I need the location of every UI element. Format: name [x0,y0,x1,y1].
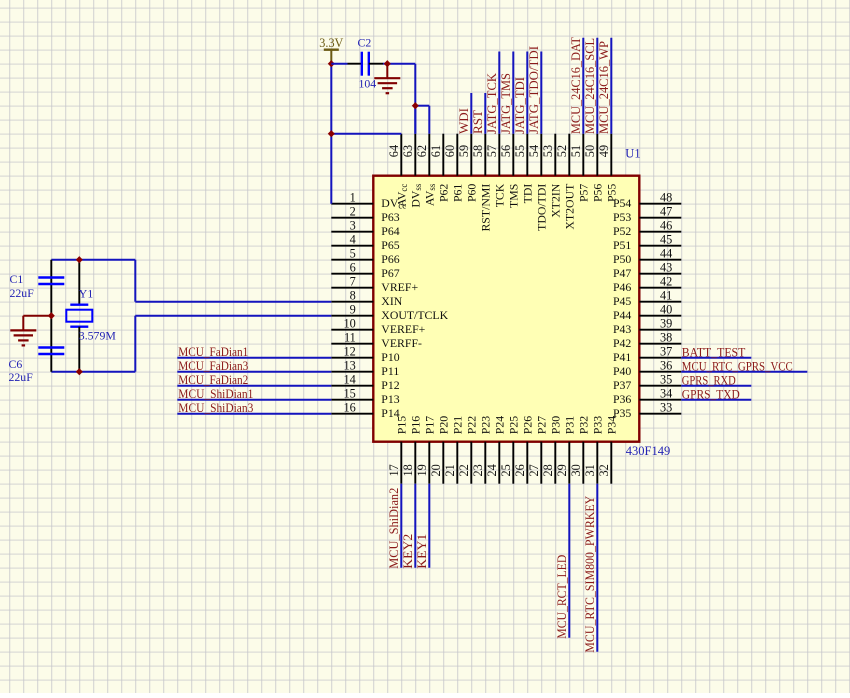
wire net JATG_TDI [526,52,528,134]
svg-text:28: 28 [541,464,555,476]
pin 24 P24 bottom [485,416,506,484]
svg-text:19: 19 [415,464,429,476]
svg-text:P16: P16 [409,416,423,434]
wire net BATT_TEST [681,357,751,359]
svg-text:P67: P67 [381,266,399,280]
svg-text:13: 13 [344,359,356,373]
svg-text:P51: P51 [613,238,631,252]
svg-text:17: 17 [387,464,401,476]
net label MCU_FaDian3 [178,359,248,373]
wire net JATG_TCK [498,52,500,134]
svg-text:37: 37 [660,345,672,359]
pin 12 P10 left [331,345,399,364]
svg-text:XT2IN: XT2IN [549,183,563,218]
svg-text:XT2OUT: XT2OUT [563,183,577,230]
pin 30 P32 bottom [569,416,590,484]
pin 33 P35 right [613,401,681,420]
svg-text:44: 44 [660,247,672,261]
net label MCU_RTC_GPRS_VCC [682,360,793,374]
svg-text:WDI: WDI [457,108,471,134]
pin 36 P40 right [613,359,681,378]
wire net JATG_TMS [512,52,514,134]
svg-text:2: 2 [350,205,356,219]
pin 4 P65 left [331,233,399,252]
svg-text:P22: P22 [465,416,479,434]
pin 63 DVss top [401,134,423,208]
wire net MCU_ShiDian2 [400,484,402,568]
svg-text:RST/NMI: RST/NMI [479,184,493,232]
svg-text:P44: P44 [613,308,631,322]
junction 3.3V branch [328,130,335,137]
svg-text:36: 36 [660,359,672,373]
net label KEY1 [415,534,429,569]
svg-text:P65: P65 [381,238,399,252]
svg-text:VREF+: VREF+ [381,280,418,294]
svg-text:RST: RST [471,110,485,134]
svg-text:60: 60 [443,145,457,157]
wire XIN to pin 8 [135,260,331,302]
svg-text:56: 56 [499,145,513,157]
net label WDI [457,108,471,134]
svg-text:MCU_FaDian2: MCU_FaDian2 [178,373,248,387]
svg-text:P30: P30 [549,416,563,434]
net label GPRS_TXD [682,388,740,402]
wire net MCU_RTC_GPRS_VCC [681,371,807,373]
svg-text:104: 104 [359,77,377,91]
svg-text:KEY1: KEY1 [415,534,429,569]
svg-text:48: 48 [660,191,672,205]
pin 56 TMS top [499,134,520,208]
svg-text:3: 3 [350,219,356,233]
svg-text:22: 22 [457,464,471,476]
svg-text:C6: C6 [9,357,23,371]
svg-text:42: 42 [660,275,672,289]
net label MCU_ShiDian3 [178,401,253,415]
svg-text:49: 49 [597,145,611,157]
svg-text:P56: P56 [591,184,605,202]
svg-text:34: 34 [660,387,672,401]
power 3.3V symbol [319,36,343,64]
svg-text:VEREF+: VEREF+ [381,322,425,336]
pin 1 DVcc left [331,191,406,211]
svg-text:21: 21 [443,464,457,476]
pin 20 P20 bottom [429,416,450,484]
pin 25 P25 bottom [499,416,520,484]
net label JATG_TCK [485,72,499,134]
pin 57 TCK top [485,134,506,208]
svg-text:61: 61 [429,145,443,157]
svg-text:23: 23 [471,464,485,476]
svg-text:JATG_TMS: JATG_TMS [499,73,513,134]
svg-text:C1: C1 [10,272,24,286]
pin 54 TDO/TDI top [527,134,548,231]
wire net KEY2 [414,484,416,568]
capacitor C6 22uF [9,348,65,385]
svg-text:P46: P46 [613,280,631,294]
net label JATG_TMS [499,73,513,134]
pin 17 P15 bottom [387,416,408,484]
svg-text:57: 57 [485,145,499,157]
svg-text:55: 55 [513,145,527,157]
svg-text:JATG_TCK: JATG_TCK [485,72,499,134]
svg-text:43: 43 [660,261,672,275]
svg-text:P26: P26 [521,416,535,434]
ground symbol left [10,316,51,346]
svg-text:3.579M: 3.579M [79,329,117,343]
pin 8 XIN left [331,289,402,308]
pin 42 P46 right [613,275,681,294]
svg-text:P41: P41 [613,350,631,364]
pin 16 P14 left [331,401,399,420]
svg-text:TMS: TMS [507,184,521,208]
net label GPRS_RXD [682,374,736,388]
pin 27 P27 bottom [527,416,548,484]
wire net GPRS_TXD [681,399,751,401]
wire ground net to pin 63 DVss [387,64,429,134]
svg-text:26: 26 [513,464,527,476]
net label JATG_TDO/TDI [527,46,541,134]
svg-text:TDI: TDI [521,184,535,204]
svg-text:XIN: XIN [381,294,402,308]
svg-text:VERFF-: VERFF- [381,336,422,350]
pin 38 P42 right [613,331,681,350]
pin 2 P63 left [331,205,399,224]
svg-text:3.3V: 3.3V [319,36,343,50]
pin 45 P51 right [613,233,681,252]
wire 3.3V branch to pin 64 AVcc [331,133,401,135]
crystal Y1 3.579M [66,260,116,372]
pin 51 P57 top [569,134,590,202]
svg-text:P25: P25 [507,416,521,434]
net label KEY2 [401,534,415,569]
svg-text:P20: P20 [437,416,451,434]
pin 6 P67 left [331,261,399,280]
wire net MCU_FaDian3 [177,371,331,373]
svg-text:P23: P23 [479,416,493,434]
pin 59 P60 top [457,134,478,202]
wire net MCU_FaDian1 [177,357,331,359]
svg-text:P13: P13 [381,392,399,406]
net label MCU_FaDian1 [178,345,248,359]
junction ground left [48,312,55,319]
svg-text:11: 11 [344,331,356,345]
svg-text:MCU_24C16_WP: MCU_24C16_WP [597,41,611,134]
svg-text:52: 52 [555,145,569,157]
svg-text:P63: P63 [381,210,399,224]
svg-text:P10: P10 [381,350,399,364]
svg-text:MCU_ShiDian1: MCU_ShiDian1 [178,387,253,401]
svg-text:39: 39 [660,317,672,331]
svg-text:P62: P62 [437,184,451,202]
pin 55 TDI top [513,134,534,204]
svg-text:54: 54 [527,145,541,157]
net label RST [471,110,485,134]
net label MCU_24C16_DAT [569,37,583,134]
svg-text:TCK: TCK [493,183,507,207]
pin 31 P33 bottom [583,416,604,484]
pin 22 P22 bottom [457,416,478,484]
svg-text:38: 38 [660,331,672,345]
svg-text:P21: P21 [451,416,465,434]
pin 47 P53 right [613,205,681,224]
svg-text:P57: P57 [577,184,591,202]
svg-text:6: 6 [350,261,356,275]
svg-text:50: 50 [583,145,597,157]
svg-text:47: 47 [660,205,672,219]
svg-text:29: 29 [555,464,569,476]
wire left branch C1/C6 [50,260,52,372]
pin 62 AVss top [415,134,437,206]
svg-text:P37: P37 [613,378,631,392]
svg-text:MCU_ShiDian2: MCU_ShiDian2 [387,488,401,569]
pin 37 P41 right [613,345,681,364]
wire net MCU_ShiDian3 [177,413,331,415]
svg-text:22uF: 22uF [9,370,34,384]
svg-text:64: 64 [387,145,401,157]
svg-text:MCU_RTC_SIM800_PWRKEY: MCU_RTC_SIM800_PWRKEY [583,496,597,653]
wire crystal bottom rail [51,371,135,373]
svg-text:GPRS_TXD: GPRS_TXD [682,388,740,402]
svg-text:P42: P42 [613,336,631,350]
svg-text:P11: P11 [381,364,399,378]
svg-text:P53: P53 [613,210,631,224]
svg-text:63: 63 [401,145,415,157]
svg-text:5: 5 [350,247,356,261]
pin 13 P11 left [331,359,399,378]
junction crystal top [76,256,83,263]
svg-text:P31: P31 [563,416,577,434]
net label BATT_TEST [682,346,746,360]
svg-text:62: 62 [415,145,429,157]
svg-text:58: 58 [471,145,485,157]
svg-text:P47: P47 [613,266,631,280]
svg-text:BATT_TEST: BATT_TEST [682,346,746,360]
net label MCU_RTC_SIM800_PWRKEY [583,496,597,653]
svg-text:Y1: Y1 [79,287,94,301]
pin 14 P12 left [331,373,399,392]
pin 28 P30 bottom [541,416,562,484]
pin 35 P37 right [613,373,681,392]
svg-text:P50: P50 [613,252,631,266]
pin 15 P13 left [331,387,399,406]
wire net MCU_FaDian2 [177,385,331,387]
wire XOUT/TCLK from pin 9 [135,316,331,372]
ground symbol top [374,64,400,93]
svg-text:20: 20 [429,464,443,476]
pin 32 P34 bottom [597,416,618,484]
svg-text:41: 41 [660,289,672,303]
wire 3.3V rail vertical to pin 1 [330,64,332,204]
svg-text:59: 59 [457,145,471,157]
svg-text:P12: P12 [381,378,399,392]
capacitor C2 104 [331,36,387,91]
wire net GPRS_RXD [681,385,751,387]
svg-text:30: 30 [569,464,583,476]
pin 43 P47 right [613,261,681,280]
svg-text:9: 9 [350,303,356,317]
svg-text:P60: P60 [465,184,479,202]
svg-text:P40: P40 [613,364,631,378]
svg-text:P66: P66 [381,252,399,266]
wire net MCU_RCT_LED [568,484,570,638]
junction crystal bottom [76,368,83,375]
pin 50 P56 top [583,134,604,202]
wire net MCU_24C16_SCL [596,38,598,134]
pin 53 XT2IN top [541,134,562,218]
pin 52 XT2OUT top [555,134,576,230]
capacitor C1 22uF [10,272,65,300]
svg-text:35: 35 [660,373,672,387]
wire net KEY1 [428,484,430,568]
pin 58 RST/NMI top [471,134,492,232]
svg-text:27: 27 [527,464,541,476]
svg-text:MCU_RCT_LED: MCU_RCT_LED [555,555,569,639]
svg-text:8: 8 [350,289,356,303]
svg-text:P24: P24 [493,416,507,434]
net label MCU_ShiDian1 [178,387,253,401]
svg-text:22uF: 22uF [10,286,35,300]
svg-text:10: 10 [344,317,356,331]
pin 64 AVcc top [387,134,409,207]
pin 10 VEREF+ left [331,317,425,336]
net label MCU_ShiDian2 [387,488,401,569]
svg-text:GPRS_RXD: GPRS_RXD [682,374,736,388]
wire net MCU_ShiDian1 [177,399,331,401]
svg-text:P64: P64 [381,224,399,238]
pin 41 P45 right [613,289,681,308]
wire crystal top rail [51,259,135,261]
svg-text:31: 31 [583,464,597,476]
svg-text:P61: P61 [451,184,465,202]
net label MCU_24C16_SCL [583,38,597,134]
svg-text:15: 15 [344,387,356,401]
svg-text:MCU_FaDian3: MCU_FaDian3 [178,359,248,373]
svg-text:40: 40 [660,303,672,317]
net label JATG_TDI [513,77,527,134]
pin 11 VERFF- left [331,331,422,350]
svg-text:4: 4 [350,233,356,247]
svg-text:14: 14 [344,373,356,387]
svg-text:P34: P34 [605,416,619,434]
svg-text:P27: P27 [535,416,549,434]
pin 46 P52 right [613,219,681,238]
svg-text:JATG_TDO/TDI: JATG_TDO/TDI [527,46,541,134]
net label MCU_FaDian2 [178,373,248,387]
wire net MCU_24C16_DAT [582,38,584,134]
junction 3.3V at C2 [328,60,335,67]
svg-text:P45: P45 [613,294,631,308]
pin 48 P54 right [613,191,681,210]
svg-text:7: 7 [350,275,356,289]
svg-text:P55: P55 [605,184,619,202]
svg-text:XOUT/TCLK: XOUT/TCLK [381,308,448,322]
svg-text:18: 18 [401,464,415,476]
wire net MCU_24C16_WP [610,38,612,134]
pin 49 P55 top [597,134,618,202]
pin 19 P17 bottom [415,416,436,484]
pin 61 P62 top [429,134,450,202]
wire net JATG_TDO/TDI [540,52,542,134]
pin 3 P64 left [331,219,399,238]
pin 18 P16 bottom [401,416,422,484]
svg-text:MCU_FaDian1: MCU_FaDian1 [178,345,248,359]
pin 39 P43 right [613,317,681,336]
wire net WDI [470,93,472,134]
pin 26 P26 bottom [513,416,534,484]
svg-text:U1: U1 [625,147,640,161]
pin 40 P44 right [613,303,681,322]
svg-text:C2: C2 [358,36,372,50]
svg-text:25: 25 [499,464,513,476]
svg-text:P52: P52 [613,224,631,238]
pin 34 P36 right [613,387,681,406]
junction ground at C2 [384,60,391,67]
pin 60 P61 top [443,134,464,202]
svg-text:P15: P15 [395,416,409,434]
wire net MCU_RTC_SIM800_PWRKEY [596,484,598,652]
pin 21 P21 bottom [443,416,464,484]
pin 9 XOUT/TCLK left [331,303,448,322]
svg-text:53: 53 [541,145,555,157]
pin 5 P66 left [331,247,399,266]
svg-text:TDO/TDI: TDO/TDI [535,184,549,231]
svg-text:MCU_ShiDian3: MCU_ShiDian3 [178,401,253,415]
wire net RST [484,93,486,134]
net label MCU_24C16_WP [597,41,611,134]
svg-text:430F149: 430F149 [626,444,670,458]
net label MCU_RCT_LED [555,555,569,639]
svg-text:JATG_TDI: JATG_TDI [513,77,527,134]
pin 7 VREF+ left [331,275,418,294]
svg-text:P32: P32 [577,416,591,434]
svg-text:1: 1 [350,191,356,205]
svg-text:P17: P17 [423,416,437,434]
svg-text:24: 24 [485,464,499,476]
svg-text:KEY2: KEY2 [401,534,415,569]
svg-text:P36: P36 [613,392,631,406]
MCU U1 430F149 body [373,176,639,442]
svg-text:MCU_RTC_GPRS_VCC: MCU_RTC_GPRS_VCC [682,360,793,374]
svg-text:45: 45 [660,233,672,247]
svg-text:51: 51 [569,145,583,157]
svg-text:P33: P33 [591,416,605,434]
svg-text:MCU_24C16_SCL: MCU_24C16_SCL [583,38,597,134]
pin 29 P31 bottom [555,416,576,484]
svg-text:P43: P43 [613,322,631,336]
pin 44 P50 right [613,247,681,266]
svg-text:33: 33 [660,401,672,415]
svg-text:32: 32 [597,464,611,476]
junction ground branch [412,102,419,109]
svg-text:46: 46 [660,219,672,233]
svg-text:12: 12 [344,345,356,359]
svg-text:16: 16 [344,401,356,415]
svg-text:MCU_24C16_DAT: MCU_24C16_DAT [569,37,583,134]
pin 23 P23 bottom [471,416,492,484]
